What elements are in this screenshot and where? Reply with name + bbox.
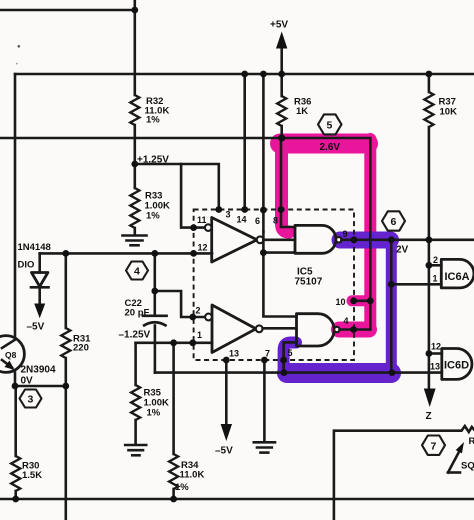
wire: IC6D pin 12 stub bbox=[429, 352, 442, 355]
transistor Q8 2N3904 bbox=[0, 336, 56, 376]
hexagon node 4 bbox=[126, 262, 148, 280]
signal Z arrow bbox=[424, 389, 436, 423]
svg-text:DIO: DIO bbox=[18, 260, 35, 271]
svg-text:8: 8 bbox=[273, 216, 278, 226]
wire: -1.25V line to pin 1 bbox=[136, 341, 212, 344]
svg-text:220: 220 bbox=[73, 343, 89, 354]
wire: 2V rail from upper NAND output to right edge bbox=[342, 239, 474, 242]
wire: bottom-right box corner with resistor stub off-page bbox=[334, 426, 474, 520]
svg-text:2V: 2V bbox=[396, 245, 409, 256]
wire: 0V line bbox=[14, 385, 66, 388]
svg-text:5: 5 bbox=[327, 120, 333, 132]
svg-text:3: 3 bbox=[226, 210, 231, 220]
op-amp U1: IC5 upper receiver triangle bbox=[205, 218, 264, 263]
svg-text:1%: 1% bbox=[146, 211, 160, 222]
svg-text:–5V: –5V bbox=[27, 322, 45, 333]
junction dots bbox=[131, 7, 138, 14]
wire: IC5 pin 6 vertical upper part from rail bbox=[262, 74, 265, 232]
wire: +5V rail bbox=[15, 73, 474, 76]
wire: 2.6V line to pink vertical, down to pin10/pin4 bbox=[282, 138, 371, 330]
wire: R33 bottom lead to ground bbox=[134, 228, 137, 234]
op-amp U2: IC5 lower receiver triangle bbox=[205, 305, 263, 353]
gate IC6D bbox=[442, 349, 472, 380]
wire: IC5 pin 6 vertical lower part to lower gate bbox=[263, 232, 296, 317]
svg-text:11: 11 bbox=[197, 215, 207, 225]
svg-text:11.0K: 11.0K bbox=[180, 470, 205, 481]
IC5 dashed box bbox=[194, 210, 354, 361]
bubble on upper NAND output bbox=[336, 237, 341, 242]
wire: lower amp output to gate bbox=[263, 327, 297, 330]
gate: IC5 lower NAND bbox=[297, 314, 335, 346]
resistor R36 bbox=[277, 74, 311, 138]
wire: branch to pin 11 bubble bbox=[181, 164, 205, 228]
svg-text:1: 1 bbox=[197, 330, 202, 340]
svg-text:SQ: SQ bbox=[461, 461, 474, 472]
wire: pin 10 stub bbox=[353, 299, 371, 302]
svg-text:10K: 10K bbox=[440, 107, 458, 118]
wire: pin 7 lead down to ground bbox=[263, 360, 266, 442]
wire: C22 branch to pin 2 bbox=[155, 291, 205, 317]
resistor R34 bbox=[169, 343, 204, 499]
svg-text:7: 7 bbox=[431, 441, 437, 453]
svg-text:4: 4 bbox=[344, 316, 349, 326]
svg-text:1: 1 bbox=[433, 274, 438, 284]
svg-text:75107: 75107 bbox=[295, 277, 323, 288]
wire: R32/R33 column vertical (top edge to +1.25V node) bbox=[134, 0, 137, 95]
svg-text:Z: Z bbox=[426, 411, 432, 422]
wire: vertical from 2V rail to IC6 pins and Z bbox=[428, 240, 431, 389]
highlight purple trace: 2V net (IC5 pin 9, pin 5, C22, IC6 inputs) bbox=[284, 238, 392, 373]
svg-text:13: 13 bbox=[229, 349, 239, 359]
svg-text:1N4148: 1N4148 bbox=[18, 242, 51, 253]
ground below R35 bbox=[125, 445, 146, 455]
svg-text:1%: 1% bbox=[147, 408, 161, 419]
wire: pin 13 lead down to -5V bbox=[225, 360, 228, 425]
resistor R37 bbox=[424, 74, 457, 240]
ground below R33 bbox=[123, 236, 147, 246]
wire: 2.6V horizontal line from left edge to R36 bottom bbox=[0, 137, 282, 140]
svg-text:4: 4 bbox=[134, 266, 140, 278]
wire: pin 5 elbow into lower gate and down to long line bbox=[284, 342, 297, 372]
resistor R30 bbox=[11, 386, 42, 499]
hexagon node 5 bbox=[318, 114, 342, 134]
wire: top-left horizontal to R32 column bbox=[0, 9, 135, 12]
hexagon node 3 bbox=[20, 390, 42, 408]
wire: Q8 emitter to 0V line bbox=[14, 373, 17, 387]
svg-text:1%: 1% bbox=[146, 115, 160, 126]
svg-text:2: 2 bbox=[196, 306, 201, 316]
svg-text:2.6V: 2.6V bbox=[320, 142, 341, 153]
svg-text:1K: 1K bbox=[296, 106, 308, 117]
resistor R35 bbox=[131, 343, 169, 444]
svg-text:13: 13 bbox=[430, 362, 440, 372]
wire: long bottom net line (C22 to IC6D pin 13) bbox=[155, 371, 442, 374]
svg-text:5: 5 bbox=[288, 348, 293, 358]
wire: lower NAND output to pink vertical bbox=[340, 328, 371, 331]
svg-text:+5V: +5V bbox=[270, 20, 288, 31]
SQ selector arrow bbox=[448, 436, 474, 473]
resistor R32 bbox=[130, 95, 169, 126]
wire: left corner vertical (rail to Q8 collector) bbox=[14, 74, 17, 337]
capacitor C22 bbox=[125, 253, 167, 372]
wire: pin 12 line from diode corner to upper amp bbox=[40, 252, 212, 255]
hexagon node 7 bbox=[422, 436, 445, 455]
svg-text:6: 6 bbox=[391, 216, 397, 228]
svg-text:1%: 1% bbox=[175, 482, 189, 493]
wire: pin 8 vertical into upper gate bbox=[281, 138, 295, 227]
wire: upper amp output to gate bbox=[264, 239, 296, 242]
power -5V arrow (pin 13) bbox=[215, 424, 233, 457]
ground below pin 7 bbox=[254, 442, 275, 452]
gate IC6A bbox=[441, 259, 474, 288]
svg-text:1.5K: 1.5K bbox=[22, 470, 42, 481]
wire: purple vertical (2V net down to bottom line) bbox=[390, 240, 393, 373]
svg-text:12: 12 bbox=[198, 243, 208, 253]
svg-text:–1.25V: –1.25V bbox=[119, 330, 151, 341]
resistor R33 bbox=[130, 188, 170, 228]
svg-text:3: 3 bbox=[28, 394, 34, 406]
highlight pink trace: 2.6V net (R36 bottom to IC5 pin 8, pin 10, pin 4) bbox=[280, 139, 370, 330]
svg-text:R: R bbox=[469, 436, 474, 447]
wire: bottom rail bbox=[0, 498, 474, 501]
svg-text:14: 14 bbox=[237, 215, 247, 225]
diode DIO 1N4148 bbox=[18, 242, 51, 333]
svg-text:2: 2 bbox=[433, 255, 438, 265]
paper specks bbox=[18, 45, 21, 48]
svg-text:IC6A: IC6A bbox=[445, 271, 470, 283]
svg-text:IC6D: IC6D bbox=[444, 360, 469, 372]
svg-text:9: 9 bbox=[343, 229, 348, 239]
svg-text:Q8: Q8 bbox=[5, 350, 17, 360]
svg-text:12: 12 bbox=[431, 342, 441, 352]
resistor R31 bbox=[61, 253, 91, 520]
wire: pin 6 strobe branch to upper gate bbox=[263, 251, 295, 254]
gate: IC5 upper NAND bbox=[295, 225, 336, 253]
svg-text:10: 10 bbox=[336, 297, 346, 307]
svg-text:6: 6 bbox=[255, 216, 260, 226]
svg-text:–5V: –5V bbox=[215, 446, 233, 457]
wire: +1.25V node branch to pin 3 bbox=[135, 164, 219, 210]
svg-text:2N3904: 2N3904 bbox=[21, 365, 56, 376]
bubble on lower NAND output bbox=[334, 327, 339, 332]
wire: branch to IC6A pin 1 bbox=[391, 283, 441, 286]
wire: IC5 pin 14 vertical from rail bbox=[243, 74, 246, 210]
power +5V arrow bbox=[270, 20, 288, 75]
hexagon node 6 bbox=[382, 211, 405, 230]
wire: IC6A pin 2 stub bbox=[429, 264, 441, 267]
